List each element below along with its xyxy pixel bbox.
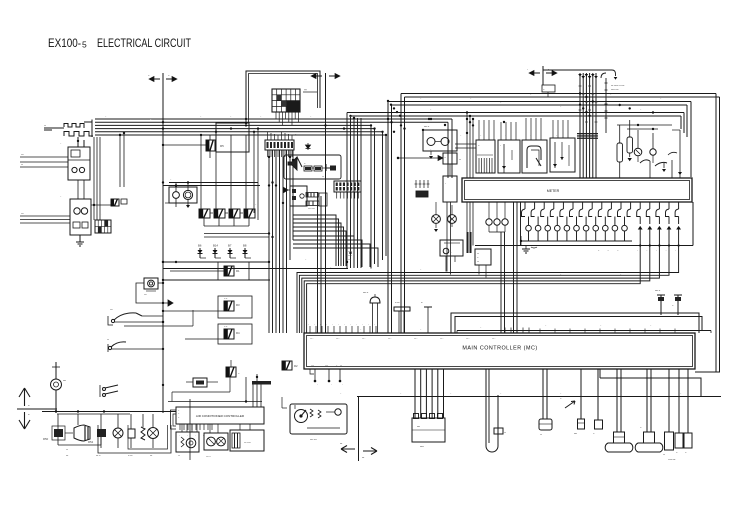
svg-text:▪▪▪ ▪: ▪▪▪ ▪: [310, 338, 314, 340]
top bus lines: [347, 94, 720, 117]
svg-text:▪▪▪ ▪▪▪▪▪▪: ▪▪▪ ▪▪▪▪▪▪: [244, 442, 251, 444]
svg-text:▪▪▪ ▪: ▪▪▪ ▪: [414, 338, 418, 340]
bottom rail 1: [357, 396, 721, 398]
svg-text:▪▪ ▪▪▪: ▪▪ ▪▪▪: [395, 302, 400, 304]
svg-text:▪▪▪: ▪▪▪: [477, 261, 479, 263]
pump lamps: [432, 215, 457, 232]
svg-text:▪ ▪▪▪▪ ▪▪▪: ▪ ▪▪▪▪ ▪▪▪: [668, 459, 676, 461]
relay box mid: [475, 249, 491, 278]
relay R1 box: [218, 262, 249, 280]
monitor panel A: [476, 140, 495, 173]
svg-text:▪▪▪: ▪▪▪: [340, 366, 342, 368]
resistor R52: [88, 414, 106, 448]
horn speaker: [66, 414, 90, 451]
monitor bus links: [388, 119, 476, 125]
svg-text:▪▪▪ ▪: ▪▪▪ ▪: [492, 338, 496, 340]
svg-text:R4: R4: [236, 331, 240, 335]
big loop rectangle: [246, 71, 320, 123]
svg-text:▪▪▪ ▪▪: ▪▪▪ ▪▪: [96, 455, 101, 457]
resistor right 2: [627, 120, 633, 161]
svg-text:▪▪▪: ▪▪▪: [540, 434, 542, 436]
svg-text:▪▪▪▪: ▪▪▪▪: [304, 90, 307, 92]
svg-text:▪▪▪: ▪▪▪: [66, 449, 68, 451]
starter wires: [77, 137, 84, 199]
svg-text:▪▪▪: ▪▪▪: [663, 454, 665, 456]
hairpin loop: [486, 369, 506, 452]
fusible link leads: [44, 125, 64, 130]
section divider line 1: [162, 73, 164, 413]
title text: [48, 38, 191, 50]
svg-text:▪▪▪▪ ▪▪▪▪: ▪▪▪▪ ▪▪▪▪: [310, 439, 317, 441]
svg-text:B7: B7: [228, 244, 232, 248]
svg-text:▪▪▪▪: ▪▪▪▪: [348, 259, 351, 261]
alternator box: [70, 199, 91, 235]
svg-text:B6: B6: [198, 244, 202, 248]
right sender circles: [634, 130, 656, 156]
ac controller box: [171, 407, 265, 429]
svg-text:▪▪▪▪: ▪▪▪▪: [63, 380, 66, 382]
glow plug 2: [635, 369, 663, 452]
fusible link lower: [64, 132, 93, 137]
small box below divider3: [542, 85, 555, 97]
alternator ground: [76, 235, 84, 246]
svg-text:▪▪▪: ▪▪▪: [107, 339, 109, 341]
bus band mid corners: [371, 125, 386, 268]
svg-text:▪▪▪: ▪▪▪: [21, 165, 23, 167]
ac sub box 1: [176, 432, 199, 457]
hour meter loop: [136, 282, 173, 306]
ac right vertical wires: [168, 374, 271, 407]
diode group B6 B14 B7 B8: [196, 244, 251, 259]
diode above group: [306, 143, 311, 150]
ac wires: [182, 424, 250, 433]
svg-text:METER: METER: [547, 189, 560, 193]
meter box: [462, 178, 692, 202]
starter box: [68, 147, 90, 180]
pressure switch 1: [108, 309, 164, 325]
fuel sender wires: [282, 397, 287, 408]
left area vertical wires: [119, 132, 125, 187]
bundle hook: [543, 70, 617, 133]
svg-text:▪▪▪: ▪▪▪: [150, 455, 153, 457]
bus band corner right: [95, 119, 449, 178]
dark connector bars: [467, 232, 472, 253]
right switch symbols: [640, 152, 677, 178]
ac sub box 3: [230, 430, 264, 451]
monitor panel pins top: [479, 118, 568, 140]
upper link lines: [398, 144, 476, 185]
monitor panel B: [498, 140, 520, 173]
ac controller pins top: [179, 424, 212, 437]
engine stop group box: [284, 155, 341, 179]
cigar lighter: [51, 362, 67, 413]
svg-text:B14: B14: [213, 244, 218, 248]
monitor panel C: [522, 140, 547, 173]
nested wire band: [297, 230, 679, 334]
center vertical bundle: [388, 94, 405, 334]
mc bottom left pins: [310, 366, 343, 387]
svg-text:R1: R1: [236, 269, 240, 273]
svg-text:▪▪▪▪: ▪▪▪▪: [21, 213, 24, 215]
svg-text:R2: R2: [294, 364, 298, 368]
svg-text:▪▪▪: ▪▪▪: [312, 366, 314, 368]
relay R1: [170, 266, 240, 276]
capacity plugs: [655, 290, 682, 315]
bottom lamp 1: [113, 414, 123, 448]
relay R2: [282, 361, 298, 370]
top right wire bundle: [579, 73, 598, 178]
relay R3: [162, 296, 252, 318]
strip A wires up: [268, 132, 293, 140]
right arrow wires: [638, 217, 681, 230]
svg-text:▪▪▪▪ ▪▪: ▪▪▪▪ ▪▪: [424, 126, 429, 128]
regulator connector grid: [95, 220, 111, 233]
starter leader labels: [20, 155, 68, 168]
svg-text:▪▪▪ ▪: ▪▪▪ ▪: [362, 338, 366, 340]
bottom labels row: [66, 455, 153, 457]
top bus right corners: [681, 94, 716, 373]
section divider line 2: [325, 73, 327, 333]
sensor plug 3: [421, 302, 432, 333]
mid vertical bus2 (345-362): [347, 113, 361, 269]
above mc wire 1: [451, 313, 699, 333]
engine stop motor box: [283, 186, 327, 211]
pressure sensor plug: [363, 292, 380, 333]
monitor panel D: [550, 138, 575, 172]
drop single 2: [593, 369, 603, 435]
svg-text:▪▪▪▪▪ ▪▪▪▪: ▪▪▪▪▪ ▪▪▪▪: [308, 209, 315, 211]
staircase wires: [293, 215, 378, 267]
glow relay box: [443, 153, 461, 164]
serial text block: [348, 251, 353, 261]
svg-text:ELECTRICAL CIRCUIT: ELECTRICAL CIRCUIT: [97, 38, 191, 50]
relay near ac: [172, 360, 240, 402]
svg-text:R50: R50: [43, 437, 49, 441]
svg-text:MAIN CONTROLLER (MC): MAIN CONTROLLER (MC): [462, 346, 537, 352]
outer border: [695, 97, 720, 372]
fusible link upper: [64, 124, 84, 129]
svg-text:B8: B8: [243, 244, 247, 248]
svg-text:▪▪▪: ▪▪▪: [44, 125, 46, 127]
pump cluster wires: [397, 156, 465, 215]
relay row R6-R9: [199, 209, 255, 218]
bottom loop wires: [58, 399, 190, 460]
mid verticals 317-321: [318, 192, 322, 333]
strip A wires down: [268, 150, 293, 157]
drop single 1: [574, 369, 585, 435]
pump tall box: [443, 164, 457, 202]
divider 1 arrows: [148, 76, 177, 82]
bottom lamp 2: [148, 414, 159, 448]
svg-text:AIR CONDITIONER CONTROLLER: AIR CONDITIONER CONTROLLER: [196, 414, 245, 418]
outer border bottom loop: [600, 369, 721, 397]
svg-text:▪▪▪ ▪: ▪▪▪ ▪: [336, 338, 340, 340]
right plugs: [663, 369, 692, 461]
relay row wires: [201, 135, 249, 226]
resistor R60: [43, 414, 73, 445]
svg-text:▪▪: ▪▪: [421, 302, 423, 304]
svg-text:▪▪▪▪▪ ▪▪▪▪: ▪▪▪▪▪ ▪▪▪▪: [611, 89, 619, 91]
svg-text:▪▪ ▪▪▪: ▪▪ ▪▪▪: [128, 455, 133, 457]
left bundle near lamps: [467, 202, 521, 333]
svg-text:▪▪▪ ▪▪: ▪▪▪ ▪▪: [348, 255, 352, 257]
svg-text:▪▪▪ ▪: ▪▪▪ ▪: [466, 338, 470, 340]
wire number specks: [60, 94, 682, 395]
mid horizontal links: [162, 261, 348, 281]
pump pins: [415, 180, 430, 197]
small relay near alternator: [111, 199, 127, 206]
hour meter: [144, 278, 158, 296]
connector drop wires mid: [415, 369, 444, 418]
relay row verticals from bus: [253, 127, 259, 220]
drop pair 1: [539, 369, 552, 436]
svg-text:▪▪▪▪: ▪▪▪▪: [574, 433, 577, 435]
resistor right 1: [617, 125, 623, 178]
horn unit wires top: [163, 181, 260, 191]
page edge arrows left: [17, 388, 57, 429]
svg-text:▪▪▪: ▪▪▪: [322, 176, 324, 178]
svg-text:▪▪▪ ▪▪▪▪▪▪ ▪▪ ▪▪▪▪: ▪▪▪ ▪▪▪▪▪▪ ▪▪ ▪▪▪▪: [611, 85, 625, 87]
svg-text:▪▪▪: ▪▪▪: [459, 159, 461, 161]
meter drop wires with humps: [522, 202, 679, 217]
relay row left links: [204, 232, 274, 238]
line y326: [124, 310, 193, 326]
bottom rail 2: [24, 409, 176, 412]
svg-text:R3: R3: [236, 303, 240, 307]
right comp wires: [617, 124, 682, 178]
svg-text:▪▪: ▪▪: [28, 405, 30, 407]
diag arrow marker: [560, 398, 575, 408]
svg-text:▪▪▪▪ ▪▪: ▪▪▪▪ ▪▪: [655, 290, 660, 292]
fuse box: [272, 89, 300, 112]
mid vertical bus: [269, 150, 293, 333]
fuse box wires down: [276, 112, 298, 125]
small comp above ac: [186, 378, 218, 387]
svg-text:▪▪▪ ▪: ▪▪▪ ▪: [388, 338, 392, 340]
svg-text:5: 5: [82, 40, 87, 50]
indicator lamps: [526, 217, 628, 242]
sub rail: [57, 410, 130, 414]
divider 3 arrows top right: [527, 66, 557, 85]
lamp bottom bus: [521, 236, 632, 246]
svg-text:▪▪▪: ▪▪▪: [504, 432, 506, 434]
bottom box small: [128, 414, 135, 448]
svg-text:▪▪ ▪▪: ▪▪ ▪▪: [224, 326, 228, 328]
svg-text:▪▪▪: ▪▪▪: [66, 455, 69, 457]
bottom small switches: [100, 385, 163, 413]
bus junction dots: [119, 118, 430, 136]
divider 2 arrows: [311, 73, 340, 78]
svg-text:▪▪▪ ▪: ▪▪▪ ▪: [440, 338, 444, 340]
mc top pin bundle: [508, 262, 517, 333]
pump box bottom wires: [447, 202, 451, 275]
strip B drops: [337, 192, 359, 199]
monitor left pins: [466, 111, 474, 178]
svg-text:R5: R5: [220, 144, 224, 148]
top right text block: [611, 85, 625, 91]
lamp section bus line: [475, 202, 693, 252]
switch wires mid: [142, 316, 163, 349]
fuel sender box: [290, 404, 347, 441]
svg-text:▪▪: ▪▪: [28, 414, 30, 416]
center bundle junctions: [387, 100, 401, 117]
bottom connector mid: [412, 414, 445, 449]
relay R5 wires: [163, 135, 210, 158]
sensor plug 2: [394, 302, 410, 333]
svg-text:▪▪▪▪: ▪▪▪▪: [417, 426, 420, 428]
svg-text:▪▪▪: ▪▪▪: [340, 443, 343, 445]
svg-text:EX100-: EX100-: [48, 38, 81, 50]
svg-text:▪▪▪: ▪▪▪: [178, 455, 180, 457]
flasher circles: [486, 202, 508, 333]
connector hash marks: [577, 133, 598, 139]
main controller box: [304, 333, 695, 369]
washer motor box: [440, 240, 463, 272]
bottom resistor zigzag: [141, 414, 145, 440]
glow plug 1: [605, 369, 633, 452]
svg-text:▪▪▪: ▪▪▪: [362, 457, 365, 459]
svg-text:R52: R52: [88, 440, 94, 444]
ac sub box 2: [204, 433, 228, 458]
pump sender circles: [422, 126, 457, 159]
main bus band: [95, 119, 452, 178]
lamp ground: [522, 246, 537, 254]
svg-text:▪▪ ▪▪: ▪▪ ▪▪: [224, 298, 228, 300]
relay R5: [206, 140, 224, 151]
pressure switch 2: [107, 339, 163, 352]
battery junction wires: [84, 120, 92, 138]
svg-text:▪▪▪▪: ▪▪▪▪: [110, 309, 113, 311]
connector strip B: [334, 181, 361, 192]
speaker symbol: [288, 155, 302, 170]
svg-text:▪▪▪▪ ▪▪: ▪▪▪▪ ▪▪: [363, 292, 368, 294]
svg-text:▪▪▪: ▪▪▪: [326, 366, 328, 368]
svg-text:▪▪▪▪ ▪▪: ▪▪▪▪ ▪▪: [206, 456, 211, 458]
junction dots misc: [55, 92, 654, 412]
bundle top arrows: [543, 70, 598, 79]
fuse box label: [303, 90, 317, 93]
group resistors: [304, 163, 336, 178]
alternator wires: [91, 137, 111, 220]
above mc wire 3: [457, 331, 711, 334]
relay R4: [185, 324, 252, 344]
connector strip A: [265, 140, 294, 150]
bottom center jump arrows: [340, 397, 377, 462]
horn unit box: [169, 187, 197, 203]
horn unit bottom wires: [165, 198, 190, 208]
svg-text:▪▪▪▪▪: ▪▪▪▪▪: [420, 446, 424, 448]
alternator left leads: [20, 213, 70, 223]
above mc wire 2: [455, 317, 702, 334]
svg-text:▪▪▪▪: ▪▪▪▪: [21, 155, 24, 157]
mc pins left: [308, 324, 675, 333]
svg-text:▪▪▪: ▪▪▪: [477, 253, 479, 255]
relay R5 box: [216, 123, 249, 152]
svg-text:▪▪▪▪: ▪▪▪▪: [144, 294, 147, 296]
